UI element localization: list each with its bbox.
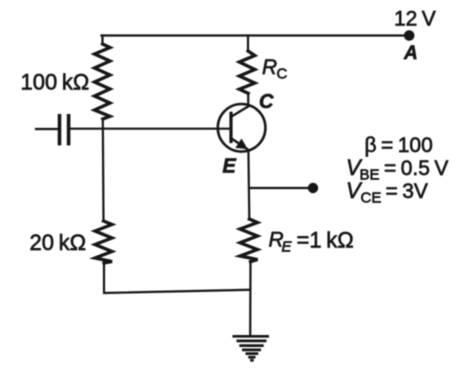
svg-text:= 3V: = 3V	[386, 180, 428, 203]
resistor RC zigzag	[239, 51, 255, 93]
svg-text:100 kΩ: 100 kΩ	[21, 70, 90, 95]
wire RE lower lead	[249, 262, 252, 336]
svg-text:β = 100: β = 100	[365, 134, 433, 157]
transistor Q1 emitter stroke	[232, 139, 248, 150]
wire bottom rail	[104, 290, 250, 293]
svg-text:A: A	[403, 43, 418, 64]
wire base lead	[71, 128, 230, 130]
transistor Q1 emitter arrow	[235, 139, 247, 150]
transistor Q1 base bar	[229, 113, 232, 141]
wire output tap	[250, 187, 309, 189]
resistor R1 100k zigzag	[95, 44, 111, 119]
svg-text:E: E	[223, 156, 237, 178]
svg-text:BE: BE	[360, 167, 380, 184]
wire emitter branch	[247, 151, 250, 220]
wire top rail	[102, 34, 410, 36]
svg-text:CE: CE	[361, 190, 382, 207]
svg-text:C: C	[277, 66, 288, 83]
svg-text:E: E	[282, 239, 293, 256]
wire RC to collector	[247, 93, 249, 106]
svg-text:20 kΩ: 20 kΩ	[30, 230, 87, 255]
transistor Q1 collector stroke	[232, 106, 250, 117]
wire collector lead	[247, 36, 249, 52]
node A terminal dot	[404, 30, 415, 41]
svg-text:12 V: 12 V	[394, 7, 436, 30]
wire left branch upper lead	[101, 36, 103, 45]
capacitor C1 plate right	[67, 116, 71, 144]
resistor R2 20k zigzag	[95, 221, 112, 263]
svg-text:R: R	[262, 56, 277, 79]
node output terminal dot	[308, 183, 318, 193]
transistor Q1 body	[218, 104, 266, 152]
wire capacitor input lead	[36, 128, 58, 130]
resistor RE zigzag	[240, 219, 258, 262]
capacitor C1 plate left	[58, 116, 62, 144]
svg-text:C: C	[259, 91, 274, 113]
wire left branch middle	[102, 119, 105, 221]
ground	[233, 336, 270, 360]
svg-text:= 0.5 V: = 0.5 V	[384, 157, 448, 180]
svg-text:=1 kΩ: =1 kΩ	[297, 228, 354, 253]
wire left branch lower lead	[103, 263, 105, 293]
